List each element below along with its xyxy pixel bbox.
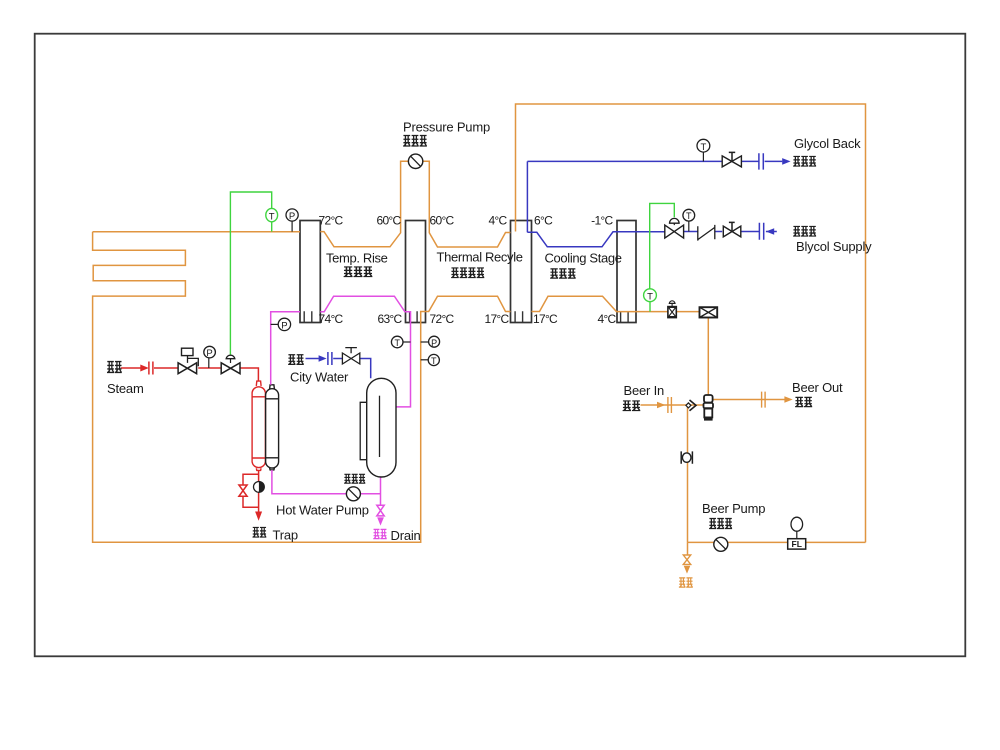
wire: beer station downcomer [687,405,689,542]
label steam-cn [107,362,122,373]
flange beer out [762,392,766,408]
pump: hot water pump [346,487,360,501]
arrow trap outlet [255,512,262,521]
svg-text:Beer Pump: Beer Pump [702,501,765,516]
label beerpump-cn [709,518,732,528]
valve blycol supply isolation (T-handle) [723,226,741,237]
valve glycol back (T-handle) [722,156,741,167]
label tr-cn [344,267,373,277]
wire: hot water to heater (plate P1 to vessel) [271,312,300,385]
gauge T blycol supply [688,221,690,231]
svg-text:Trap: Trap [273,528,298,543]
label beerout-cn [795,397,812,406]
valve trap bypass [239,485,247,496]
svg-text:Blycol Supply: Blycol Supply [796,239,872,254]
holding tube serpentine coil [93,232,511,543]
svg-text:17°C: 17°C [484,312,509,326]
wire: pump discharge top header and right downcomer [516,104,866,542]
heat exchanger plate P1 [300,221,320,323]
wire: glycol back header [527,160,782,162]
check valve blycol supply [698,225,715,241]
label cool-cn [550,269,576,278]
flange city water [328,352,332,365]
label glysup-cn [793,226,816,236]
wire: Temp.Rise bottom run and drop to tank [320,296,410,407]
temperature labels [319,214,617,327]
flow meter FL [791,517,803,531]
flange beer in [668,397,672,413]
svg-text:Pressure Pump: Pressure Pump [403,120,490,135]
steam heater red vessel [252,381,265,470]
svg-text:P: P [289,211,295,222]
svg-text:P: P [431,338,437,348]
valve V1 actuator stem, box and yoke [188,356,199,366]
label beerin-cn [623,401,641,411]
svg-text:Cooling Stage: Cooling Stage [545,251,622,266]
label glyback-cn [793,156,816,166]
svg-text:T: T [431,356,437,366]
hot water tank [367,378,396,477]
svg-text:P: P [281,321,287,332]
arrow city water [319,355,327,362]
svg-text:4°C: 4°C [597,312,616,326]
arrow beer out [784,396,792,403]
plate P1 bottom nozzle stubs [304,311,312,322]
flange glycol back [759,153,763,169]
arrow steam [140,365,149,372]
arrow blycol supply (points left) [766,228,774,235]
steam trap (half-filled circle) [254,482,265,493]
arrow beer in [657,402,665,409]
flange steam [149,362,153,375]
wire: cooling stage top run (glycol) [527,232,664,247]
plate P4 bottom nozzle stubs [621,311,629,322]
heat exchanger plate P4 [617,221,636,323]
wire: cooling stage bottom run and 4C outlet header [532,296,700,311]
valve steam gate V1 [178,363,197,374]
gauge T glycol back [702,152,704,161]
wire: heater outlet to hot water pump and tank [272,470,381,505]
gauge T magenta drop [403,341,411,343]
label drain-cn-org [679,578,693,587]
arrow beer drain [684,566,691,574]
label drain-cn-mag [373,529,386,538]
label threc-cn [451,268,484,278]
sample valve on 4C outlet [668,307,676,318]
arrow hot water drain [377,517,384,525]
svg-text:T: T [686,211,692,221]
svg-text:60°C: 60°C [430,214,455,228]
wire: glycol riser from plate P3 [526,161,528,232]
svg-text:74°C: 74°C [319,312,344,326]
label trap-cn [252,527,266,537]
label citywater-cn [288,355,304,365]
valve city water (T-handle) [342,353,359,364]
wire: Temp.Rise top run and pressure pump loop [320,161,510,247]
label hwpump-cn [344,474,365,483]
wire: beer out line [713,399,785,401]
plate P3 bottom nozzle stubs [515,311,523,322]
wire: holding-tube top line to plate P1 [93,231,300,233]
svg-text:T: T [394,338,400,348]
sight glass beer downcomer [681,451,692,463]
svg-text:60°C: 60°C [376,214,401,228]
flange blycol supply [759,223,763,240]
gauge T orange drop lower [421,359,429,361]
svg-text:FL: FL [792,539,802,549]
svg-text:6°C: 6°C [534,214,553,228]
valve blycol supply control (with dome) [665,225,684,238]
page border frame [35,34,966,657]
wire: blycol supply line [684,231,777,233]
wire: trap column and bypass [243,470,259,511]
svg-text:Thermal Recyle: Thermal Recyle [437,250,523,265]
plate strainer (X-box) on outlet [700,307,718,317]
valve steam control V2 [221,363,240,374]
three-way valve stack beer station [704,395,713,403]
hot water heater vessel (black) [266,385,279,470]
svg-text:72°C: 72°C [430,312,455,326]
tank side level gauge bracket [360,402,367,459]
svg-text:-1°C: -1°C [591,214,613,228]
svg-text:Temp. Rise: Temp. Rise [326,251,388,266]
arrow glycol back [782,158,790,165]
gauge P plate1 top [291,221,293,231]
svg-text:Beer In: Beer In [624,383,665,398]
svg-text:63°C: 63°C [377,312,402,326]
svg-text:T: T [647,291,653,302]
svg-text:Drain: Drain [391,528,421,543]
wire: temperature control loop right (to glycol valve) [650,203,675,311]
wire: beer in line [641,404,704,406]
wire: steam supply line [121,368,259,381]
pump: beer pump [714,537,728,551]
gauge T green right [644,289,657,302]
svg-text:17°C: 17°C [533,312,558,326]
gauge P orange drop [421,341,429,343]
valve beer drain [683,555,690,564]
pump: pressure pump [408,154,422,168]
svg-text:City Water: City Water [290,370,349,385]
wire: beer pump bottom line [688,541,866,543]
svg-text:Steam: Steam [107,381,144,396]
wire: temperature control loop left (to steam valve) [230,192,271,355]
valve V2 diaphragm dome [230,359,232,363]
label prpump-cn [403,136,427,146]
svg-text:4°C: 4°C [488,214,507,228]
tank internal heating element [379,396,381,457]
gauge T green left [266,208,278,221]
wire: beer drain stub [687,542,689,555]
valve hot water drain [377,505,384,516]
check valve beer in [690,400,697,411]
svg-text:72°C: 72°C [319,214,344,228]
heat exchanger plate P3 [511,221,532,323]
svg-text:Hot Water Pump: Hot Water Pump [276,503,369,518]
wire: city water line [306,359,371,379]
svg-text:T: T [700,142,706,153]
svg-text:Glycol Back: Glycol Back [794,136,861,151]
svg-text:Beer Out: Beer Out [792,380,843,395]
svg-text:P: P [206,348,212,359]
plate P2 bottom nozzle stubs [410,311,418,322]
svg-text:T: T [269,211,275,222]
gauge P steam [208,358,210,368]
heat exchanger plate P2 [406,221,426,323]
wire: outlet drop to beer-in station [707,317,709,395]
gauge P hot water line [271,323,279,325]
